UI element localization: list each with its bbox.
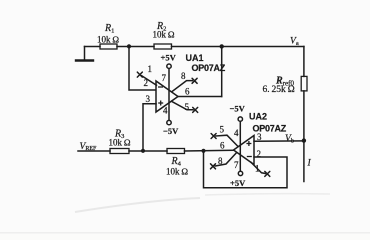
svg-text:3: 3: [257, 132, 262, 142]
svg-text:OP07AZ: OP07AZ: [192, 63, 226, 73]
svg-text:5: 5: [220, 125, 225, 135]
svg-text:6: 6: [185, 87, 190, 97]
svg-text:1: 1: [148, 64, 153, 74]
svg-text:8: 8: [218, 156, 223, 166]
svg-text:8: 8: [181, 71, 186, 81]
svg-text:3: 3: [146, 94, 151, 104]
svg-text:+5V: +5V: [161, 53, 177, 63]
svg-text:1: 1: [255, 164, 260, 174]
svg-text:7: 7: [162, 73, 167, 83]
svg-text:4: 4: [163, 106, 168, 116]
svg-text:5: 5: [185, 102, 190, 112]
svg-text:VREF: VREF: [80, 142, 97, 152]
svg-text:6: 6: [220, 141, 225, 151]
svg-text:4: 4: [234, 128, 239, 138]
svg-text:2: 2: [144, 78, 149, 88]
svg-text:UA2: UA2: [249, 112, 267, 122]
svg-text:+5V: +5V: [230, 178, 246, 188]
svg-text:10k Ω: 10k Ω: [109, 138, 131, 148]
svg-text:2: 2: [257, 149, 262, 159]
svg-text:7: 7: [234, 160, 239, 170]
svg-text:UA1: UA1: [186, 53, 204, 63]
svg-text:I: I: [307, 159, 312, 169]
svg-text:R1: R1: [104, 23, 114, 35]
svg-text:Va: Va: [290, 37, 299, 48]
svg-text:6. 25k Ω: 6. 25k Ω: [263, 85, 295, 95]
svg-text:10k Ω: 10k Ω: [166, 167, 188, 177]
svg-text:−5V: −5V: [230, 104, 246, 114]
svg-text:Vb: Vb: [285, 134, 294, 145]
svg-text:10k Ω: 10k Ω: [97, 35, 119, 45]
svg-text:−5V: −5V: [163, 126, 179, 136]
svg-text:10k Ω: 10k Ω: [153, 30, 175, 40]
svg-text:OP07AZ: OP07AZ: [253, 124, 287, 134]
